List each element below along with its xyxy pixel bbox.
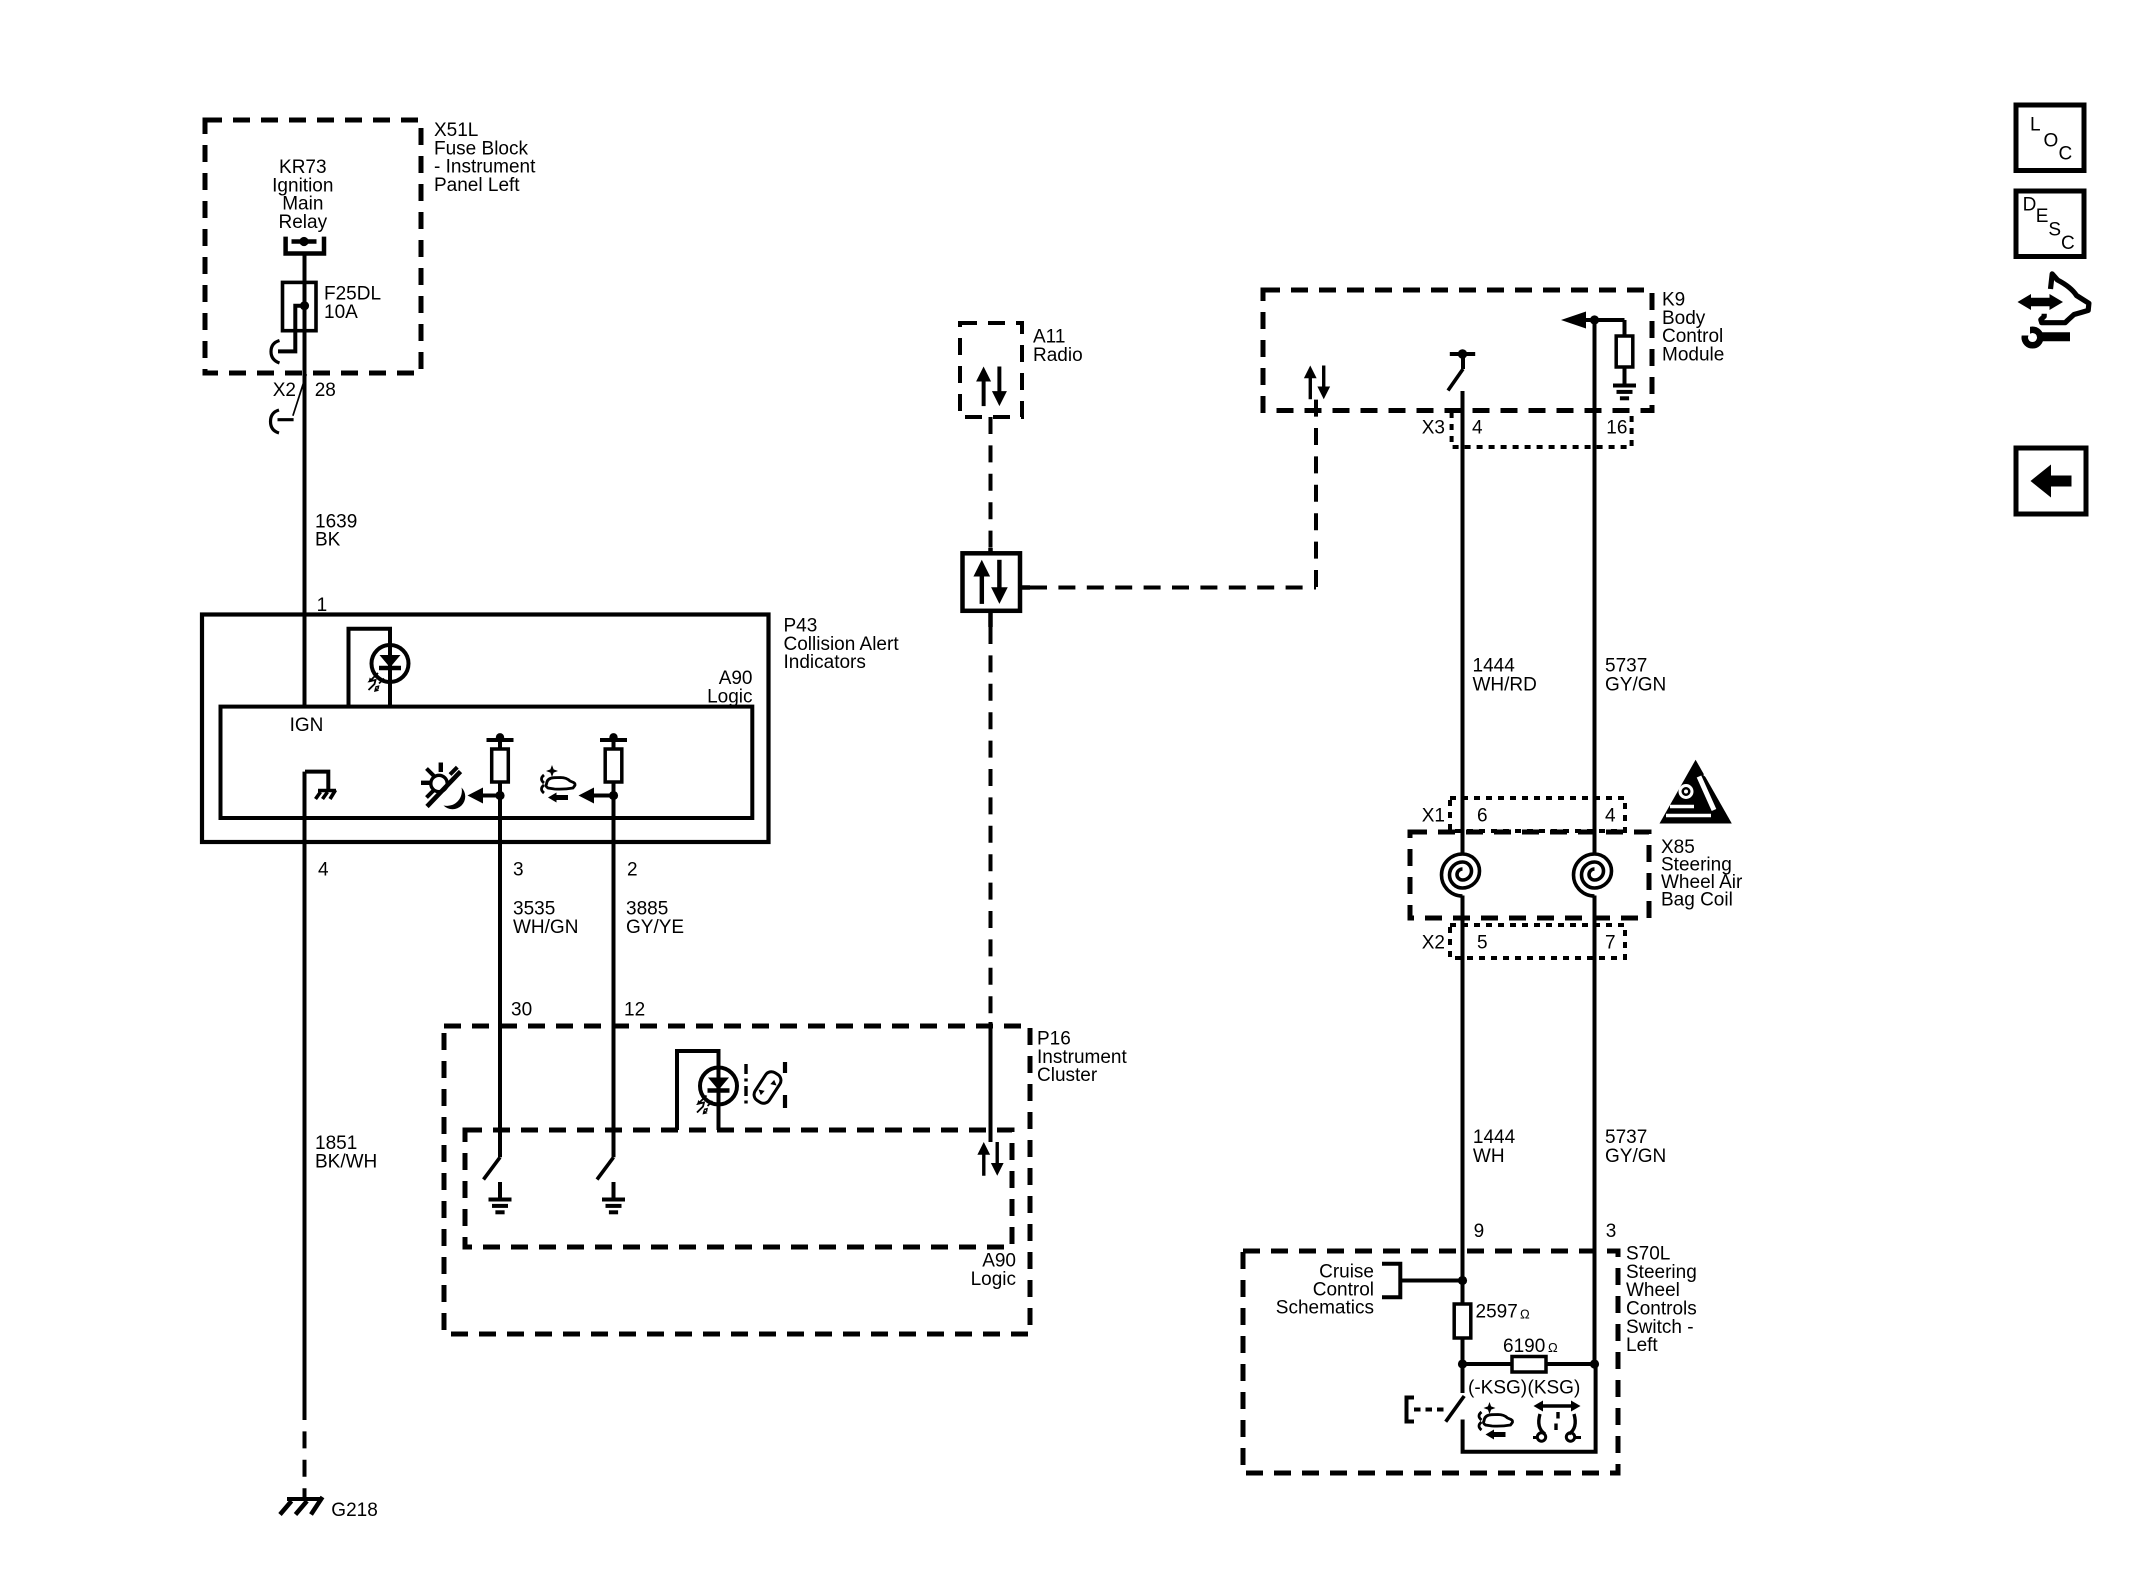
svg-text:2597: 2597	[1476, 1302, 1518, 1323]
switch pin 12	[597, 1157, 614, 1179]
module P43 label	[784, 616, 900, 674]
svg-text:G218: G218	[331, 1500, 377, 1521]
wire 1639 main vertical	[303, 282, 307, 707]
arrow output K9	[1585, 318, 1625, 322]
svg-text:1444: 1444	[1473, 1127, 1516, 1148]
switch S70L label	[1626, 1244, 1697, 1357]
svg-text:Module: Module	[1662, 345, 1724, 366]
svg-text:16: 16	[1606, 418, 1627, 439]
terminal curl below fuse	[271, 341, 280, 364]
relay KR73 label	[272, 157, 333, 233]
diagnostic icon	[2018, 274, 2089, 345]
svg-text:BK/WH: BK/WH	[315, 1151, 377, 1172]
svg-text:GY/GN: GY/GN	[1605, 674, 1666, 695]
svg-text:Schematics: Schematics	[1276, 1298, 1374, 1319]
dashed wire to G218	[303, 1403, 307, 1492]
serial data gateway box	[963, 553, 1021, 611]
ground pin 12	[602, 1200, 625, 1213]
svg-text:10A: 10A	[324, 302, 358, 323]
svg-text:WH/RD: WH/RD	[1473, 674, 1537, 695]
switch S70L dashed box	[1243, 1251, 1618, 1473]
resistor in K9	[1623, 320, 1627, 336]
serial data arrows A11	[976, 367, 1007, 407]
svg-text:D: D	[2023, 194, 2037, 215]
wire 3885	[612, 796, 616, 1158]
node junction 5737	[1590, 315, 1599, 324]
wire 5737 GY/GN	[1593, 320, 1597, 855]
ground G218	[280, 1490, 323, 1515]
svg-text:C: C	[2061, 233, 2075, 254]
resistor 2597	[1454, 1304, 1471, 1338]
fuse F25DL	[283, 282, 317, 330]
DRL off icon (sun slash)	[421, 763, 465, 810]
coil left	[1442, 854, 1480, 896]
cluster P16 outer dashed box	[444, 1026, 1030, 1334]
module K9 dashed box	[1263, 290, 1652, 411]
dashed data wire serial box to P16	[989, 627, 993, 1020]
desc nav box	[2016, 191, 2084, 257]
coil right	[1574, 854, 1612, 896]
svg-text:4: 4	[1605, 806, 1616, 827]
ground branch inside P43	[305, 772, 328, 790]
wire 1444 WH lower	[1461, 896, 1465, 1305]
P16 inner logic dashed box	[465, 1130, 1012, 1247]
LED indicator P43	[369, 645, 409, 692]
lane departure car icon	[746, 1062, 785, 1108]
svg-text:(KSG): (KSG)	[1528, 1378, 1581, 1399]
resistor (driver) pin 2	[600, 738, 627, 742]
node junction 6190 left	[1458, 1359, 1467, 1368]
svg-text:Logic: Logic	[971, 1269, 1016, 1290]
svg-text:GY/YE: GY/YE	[626, 917, 684, 938]
arrow to collision icon	[594, 794, 614, 798]
svg-text:Panel Left: Panel Left	[434, 175, 520, 196]
module K9 label	[1662, 290, 1724, 366]
dashed data wire gateway to K9	[1030, 586, 1316, 590]
svg-text:Left: Left	[1626, 1335, 1658, 1356]
collision alert icon S70L	[1479, 1402, 1513, 1440]
back arrow box	[2016, 448, 2086, 514]
node junction 6190 right	[1590, 1359, 1599, 1368]
svg-text:Cluster: Cluster	[1037, 1065, 1098, 1086]
node junction pin2 driver	[609, 791, 618, 800]
cruise control bracket	[1382, 1264, 1463, 1298]
dashed data wire A11 to gateway	[989, 417, 993, 548]
lane keep assist icon	[1533, 1401, 1581, 1442]
svg-text:WH/GN: WH/GN	[513, 917, 578, 938]
connector X1 dotted box	[1450, 798, 1625, 831]
svg-text:X2: X2	[1422, 933, 1445, 954]
svg-text:BK: BK	[315, 529, 341, 550]
svg-text:Ω: Ω	[1548, 1340, 1558, 1355]
svg-text:30: 30	[511, 1000, 532, 1021]
wire 1851 vertical from IGN ground branch	[303, 772, 307, 1403]
svg-text:6: 6	[1477, 806, 1488, 827]
svg-text:4: 4	[1472, 418, 1483, 439]
resistor 6190	[1463, 1362, 1513, 1366]
connector slash	[293, 374, 306, 416]
svg-text:4: 4	[318, 859, 329, 880]
node junction cruise	[1458, 1276, 1467, 1285]
serial data arrows K9	[1304, 366, 1330, 400]
air bag warning triangle	[1660, 760, 1732, 824]
wire into P16	[989, 1022, 993, 1142]
cluster P16 label	[1037, 1029, 1127, 1087]
wire 5737 lower	[1593, 896, 1597, 1365]
switch blade S70L	[1446, 1396, 1465, 1422]
svg-text:5737: 5737	[1605, 1127, 1647, 1148]
svg-text:Ω: Ω	[1520, 1306, 1530, 1321]
svg-text:Logic: Logic	[707, 686, 752, 707]
svg-text:E: E	[2036, 206, 2049, 227]
svg-text:O: O	[2044, 130, 2059, 151]
svg-text:IGN: IGN	[290, 715, 324, 736]
wire relay to fuse	[303, 254, 307, 283]
LED bracket P16	[677, 1051, 719, 1130]
loc nav box	[2016, 105, 2084, 171]
mechanical link bracket	[1407, 1398, 1415, 1422]
connector X3 dotted box	[1452, 412, 1632, 447]
connector X2 dotted box	[1450, 925, 1625, 958]
relay KR73 contact	[286, 237, 324, 254]
svg-text:X2: X2	[273, 380, 296, 401]
svg-text:Relay: Relay	[279, 212, 328, 233]
node junction pin3 driver	[495, 791, 504, 800]
svg-text:Indicators: Indicators	[784, 652, 866, 673]
stub right of gateway box	[1020, 585, 1030, 590]
LED indicator P16	[697, 1068, 737, 1115]
switch in K9	[1450, 352, 1475, 356]
svg-text:7: 7	[1605, 933, 1616, 954]
svg-text:GY/GN: GY/GN	[1605, 1146, 1666, 1167]
svg-text:9: 9	[1474, 1221, 1485, 1242]
radio A11 dashed box	[960, 323, 1022, 417]
svg-text:2: 2	[627, 859, 638, 880]
svg-text:X3: X3	[1422, 418, 1445, 439]
svg-text:L: L	[2030, 114, 2041, 135]
svg-text:Radio: Radio	[1033, 345, 1083, 366]
chassis ground P43	[316, 790, 337, 799]
svg-text:WH: WH	[1473, 1146, 1505, 1167]
terminal curl below X2	[271, 410, 294, 433]
serial data arrows P16	[977, 1142, 1003, 1176]
svg-text:(-KSG): (-KSG)	[1468, 1378, 1527, 1399]
P43 inner logic box	[221, 707, 753, 818]
switch pin 30	[484, 1157, 501, 1179]
svg-text:12: 12	[624, 1000, 645, 1021]
svg-text:Bag Coil: Bag Coil	[1661, 890, 1733, 911]
coil X85 label	[1661, 837, 1743, 911]
cruise control reference label	[1276, 1261, 1374, 1318]
ground pin 30	[489, 1200, 512, 1213]
coil X85 dashed box	[1410, 832, 1649, 918]
svg-text:28: 28	[315, 380, 336, 401]
LED bracket P43	[349, 629, 391, 707]
fuse block X51L dashed box	[205, 120, 421, 373]
ground in K9	[1613, 386, 1636, 399]
collision alert icon P43	[542, 765, 576, 803]
svg-text:3: 3	[1606, 1221, 1617, 1242]
wire 3535	[498, 796, 502, 1158]
resistor (driver) pin 3	[487, 738, 514, 742]
module P43 outer box	[202, 615, 769, 843]
svg-text:S: S	[2048, 220, 2061, 241]
wire to switch contact	[1461, 1338, 1465, 1393]
connector X51L label	[434, 120, 536, 196]
svg-text:C: C	[2059, 143, 2073, 164]
switch body box S70L	[1463, 1364, 1596, 1452]
svg-text:6190: 6190	[1503, 1336, 1545, 1357]
svg-text:3: 3	[513, 859, 524, 880]
svg-text:X1: X1	[1422, 806, 1445, 827]
wire 1444 WH/RD	[1461, 391, 1465, 855]
arrow to DRL icon	[482, 794, 500, 798]
svg-text:5: 5	[1477, 933, 1488, 954]
